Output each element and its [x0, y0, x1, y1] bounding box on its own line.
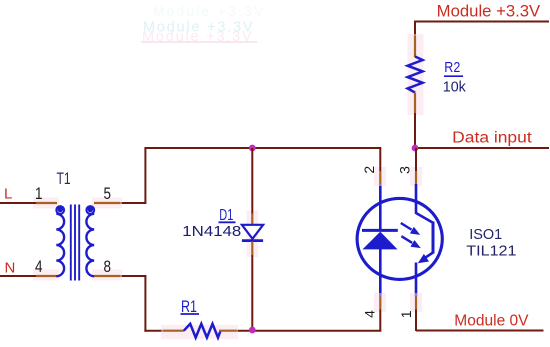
pin number 2	[361, 166, 377, 174]
label R1	[181, 298, 200, 316]
junction Data input / R2 / ISO1 pin 3	[412, 145, 419, 152]
svg-text:10k: 10k	[443, 80, 467, 96]
wire ISO1 pin 1 to Module 0V	[410, 293, 422, 331]
svg-text:1: 1	[35, 185, 43, 203]
wire L to T1 pin 1	[0, 202, 36, 204]
svg-text:5: 5	[104, 185, 112, 203]
ISO1 LED emitter	[362, 184, 398, 297]
optocoupler ISO1 body	[357, 198, 442, 279]
pin number 8 of T1	[104, 258, 112, 276]
svg-text:TIL121: TIL121	[466, 244, 516, 260]
svg-text:8: 8	[104, 258, 112, 276]
wire ISO1 pin 4 to bottom rail	[374, 293, 386, 331]
wire +3.3V rail to R2	[414, 21, 416, 39]
svg-text:4: 4	[361, 310, 377, 318]
pin number 1 of T1	[35, 185, 43, 203]
svg-text:R2: R2	[444, 59, 460, 76]
wire Module 0V rail	[416, 330, 544, 332]
svg-text:3: 3	[397, 166, 413, 174]
ghost watermark (decorative)	[141, 4, 265, 45]
transformer T1	[33, 198, 122, 281]
svg-text:Module 0V: Module 0V	[454, 312, 529, 329]
wire ISO1 pin 2 from left net rail	[374, 148, 386, 186]
label D1	[219, 207, 236, 224]
label T1	[57, 169, 71, 188]
svg-text:4: 4	[35, 258, 43, 276]
value 1N4148	[182, 223, 241, 240]
diode D1 symbol	[242, 225, 263, 241]
net label L	[4, 186, 12, 203]
svg-text:2: 2	[361, 166, 377, 174]
svg-text:Data input: Data input	[452, 130, 532, 147]
wire Data input rail	[415, 147, 549, 149]
wire top rail of LED net	[145, 147, 381, 149]
junction top rail / D1	[249, 145, 256, 152]
net label Data input	[452, 130, 532, 147]
junction bottom rail / D1	[249, 327, 256, 334]
svg-text:1: 1	[398, 310, 414, 318]
net label Module 0V	[454, 312, 529, 329]
ISO1 phototransistor	[416, 184, 433, 297]
svg-text:L: L	[4, 186, 12, 203]
wire bottom rail of LED net	[144, 330, 381, 332]
svg-text:T1: T1	[57, 169, 71, 188]
wire Module +3.3V rail	[414, 21, 549, 23]
label R2	[444, 59, 463, 76]
ISO1 light arrow 2	[401, 236, 420, 248]
wire N to T1 pin 4	[0, 275, 36, 277]
svg-text:ISO1: ISO1	[469, 227, 502, 243]
value TIL121	[466, 244, 516, 260]
resistor R2	[408, 34, 424, 115]
value 10k	[443, 80, 467, 96]
svg-text:Module +3.3V: Module +3.3V	[437, 2, 541, 20]
svg-text:1N4148: 1N4148	[182, 223, 241, 240]
wire left vertical bottom (T1 pin 8 to bottom rail)	[120, 276, 147, 332]
resistor R1	[161, 324, 238, 339]
wire junction to ISO1 pin 3	[410, 148, 422, 186]
net label Module +3.3V	[437, 2, 541, 20]
wire D1 anode (top rail to diode)	[247, 148, 258, 257]
svg-text:Module +3.3V: Module +3.3V	[153, 4, 265, 19]
svg-text:N: N	[5, 260, 16, 277]
wire D1 cathode (diode to bottom rail)	[251, 242, 253, 332]
pin number 4 of T1	[35, 258, 43, 276]
wire left vertical top (rail to T1 pin 5)	[120, 147, 147, 203]
pin number 5 of T1	[104, 185, 112, 203]
net label N	[5, 260, 16, 277]
wire R2 to Data input junction	[414, 113, 416, 148]
label ISO1	[469, 227, 502, 243]
pin number 1	[398, 310, 414, 318]
pin number 3	[397, 166, 413, 174]
pin number 4	[361, 310, 377, 318]
ISO1 light arrow 1	[401, 223, 420, 235]
